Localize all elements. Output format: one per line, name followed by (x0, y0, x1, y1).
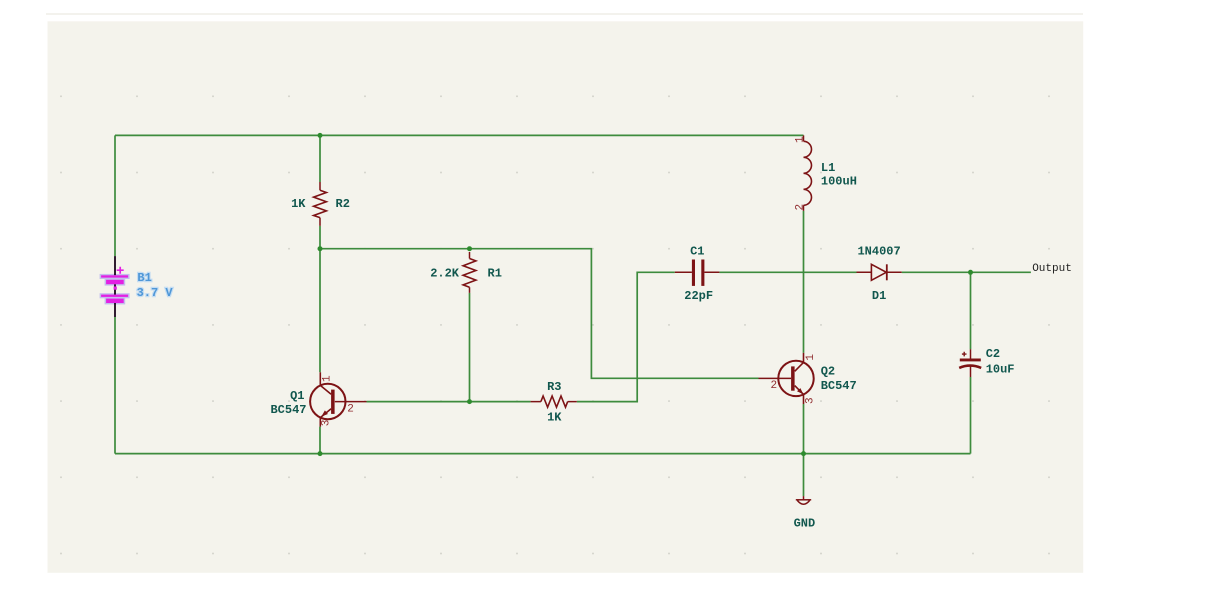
resistor R3 (531, 396, 577, 407)
wire mid rail R2 to R1 (320, 248, 470, 250)
svg-text:1: 1 (322, 375, 334, 382)
node R1 bottom / Q1 base / R3 (467, 399, 472, 404)
wire left rail to battery (114, 135, 116, 256)
svg-text:R1: R1 (488, 266, 502, 280)
svg-text:Q1: Q1 (290, 389, 304, 403)
diode D1 (857, 264, 902, 280)
svg-text:1N4007: 1N4007 (857, 244, 900, 258)
wire GND stem (803, 454, 805, 497)
inductor L1 (804, 135, 812, 211)
svg-text:C2: C2 (986, 347, 1000, 361)
wire Q1 emitter to rail (319, 427, 321, 454)
svg-text:2: 2 (347, 404, 354, 416)
node R2 bottom / mid rail (318, 246, 323, 251)
wire Q1 base to node (367, 401, 470, 403)
svg-text:GND: GND (794, 517, 816, 531)
svg-text:R3: R3 (547, 380, 561, 394)
wire L1 bottom to Q2 collector (803, 211, 805, 353)
wire mid rail to Q2 base (470, 249, 759, 379)
svg-text:2.2K: 2.2K (430, 266, 460, 280)
wire Q2 emitter to rail (803, 404, 805, 454)
wire output node to C2 (970, 272, 972, 349)
svg-text:B1: B1 (137, 271, 151, 285)
svg-text:Output: Output (1032, 263, 1072, 275)
svg-text:3.7 V: 3.7 V (137, 286, 174, 300)
capacitor C1 (675, 260, 720, 286)
svg-text:10uF: 10uF (986, 362, 1015, 376)
battery B1 (highlighted) (100, 256, 130, 317)
wire C1 right to D1 (719, 271, 856, 273)
svg-text:1K: 1K (291, 197, 306, 211)
svg-text:Q2: Q2 (821, 365, 835, 379)
wire Q1 collector riser (319, 249, 321, 373)
svg-text:BC547: BC547 (270, 403, 306, 417)
svg-text:1K: 1K (547, 411, 562, 425)
svg-text:3: 3 (805, 397, 817, 404)
svg-text:C1: C1 (690, 244, 704, 258)
ground symbol (796, 496, 811, 504)
wire node to R3 left (470, 401, 531, 403)
wire top rail (115, 134, 804, 136)
wire C2 bottom (970, 377, 972, 454)
resistor R2 (314, 182, 327, 226)
svg-text:D1: D1 (872, 289, 886, 303)
wire battery bottom to ground rail (114, 317, 116, 454)
node output / C2 (968, 270, 973, 275)
svg-text:22pF: 22pF (684, 289, 713, 303)
svg-text:L1: L1 (821, 161, 835, 175)
node top rail / R2 (318, 133, 323, 138)
svg-text:2: 2 (771, 380, 778, 392)
resistor R1 (463, 252, 476, 293)
wire R1 bottom stub (469, 293, 471, 402)
node Q1 emitter / ground rail (318, 451, 323, 456)
svg-text:BC547: BC547 (821, 379, 857, 393)
wire D1 to output (902, 271, 1031, 273)
wire R2 top stub (319, 135, 321, 182)
capacitor C2 (polarized) (959, 349, 981, 377)
svg-text:2: 2 (794, 204, 806, 211)
wire bottom ground rail (115, 453, 971, 455)
node Q2 emitter / GND (801, 451, 806, 456)
transistor Q2 (759, 353, 814, 404)
node R1 top / mid rail (467, 246, 472, 251)
svg-text:100uH: 100uH (821, 174, 857, 188)
svg-text:1: 1 (805, 354, 817, 361)
svg-text:1: 1 (794, 136, 806, 143)
wire R2 bottom stub (319, 226, 321, 249)
svg-text:R2: R2 (336, 197, 350, 211)
transistor Q1 (mirrored) (310, 372, 366, 426)
wire R3 right to C1 left (577, 272, 675, 401)
svg-text:3: 3 (321, 420, 333, 427)
